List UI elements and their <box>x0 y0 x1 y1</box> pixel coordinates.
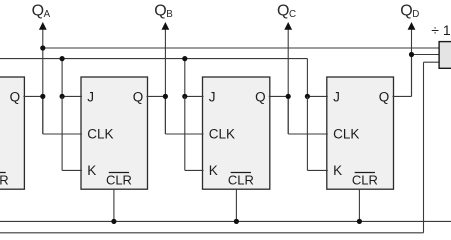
node QB output arrow <box>162 22 170 134</box>
junction dot CLR FF3 <box>234 219 239 224</box>
junction dot CLR FF4 <box>357 219 362 224</box>
svg-text:D: D <box>412 9 419 20</box>
wire: CLR drop of FF3 <box>235 189 237 221</box>
wire: rail drop to J of FF2 <box>62 59 82 97</box>
label QD <box>400 2 419 20</box>
svg-text:J: J <box>87 89 94 104</box>
junction dot QC <box>286 94 291 99</box>
svg-text:J: J <box>209 89 216 104</box>
wire: Q output of FF3 <box>269 95 288 97</box>
svg-text:CLR: CLR <box>228 173 254 188</box>
wire: Q output of FF2 <box>147 95 166 97</box>
junction dot Q_D / divider stub <box>409 52 414 57</box>
label QC <box>277 2 296 20</box>
JK flip-flop FF1 <box>0 77 24 189</box>
svg-text:Q: Q <box>400 2 412 19</box>
junction dot rail drop FF3 <box>182 56 187 99</box>
svg-text:K: K <box>333 163 342 178</box>
svg-text:A: A <box>44 9 51 20</box>
JK flip-flop FF4 <box>327 77 394 189</box>
wire: CLR bus <box>0 220 451 222</box>
svg-text:CLK: CLK <box>333 126 359 141</box>
junction dot rail drop FF4 <box>305 94 310 99</box>
junction dot QA <box>40 94 45 99</box>
wire: Q_A rail to divider input <box>43 47 440 49</box>
wire: Q_D stub into divider <box>412 54 441 56</box>
wire: drop to K of FF4 <box>307 96 327 170</box>
svg-text:J: J <box>333 89 340 104</box>
svg-text:CLK: CLK <box>209 126 235 141</box>
svg-text:Q: Q <box>277 2 289 19</box>
svg-text:CLR: CLR <box>352 173 378 188</box>
svg-text:K: K <box>209 163 218 178</box>
divider block U5 (divide-by-16) <box>439 42 451 69</box>
wire: rail drop to J of FF4 <box>307 59 327 97</box>
wire: rail drop to J of FF3 <box>185 59 204 97</box>
junction dot CLR FF2 <box>111 219 116 224</box>
svg-text:Q: Q <box>379 89 390 104</box>
junction dot QB <box>163 94 168 99</box>
node QD output arrow <box>408 22 416 96</box>
wire: CLR drop of FF2 <box>113 189 115 221</box>
node QC output arrow <box>284 22 292 134</box>
label QB <box>154 2 173 20</box>
svg-text:Q: Q <box>133 89 144 104</box>
svg-text:CLK: CLK <box>87 126 113 141</box>
svg-text:B: B <box>166 9 173 20</box>
JK flip-flop FF2 <box>81 77 148 189</box>
svg-text:Q: Q <box>154 2 166 19</box>
wire: drop to K of FF3 <box>185 96 204 170</box>
wire: Q output of FF1 <box>23 95 42 97</box>
wire: QC to CLK of FF4 <box>288 96 328 134</box>
junction dot rail drop FF2 <box>60 56 65 99</box>
node QA output arrow <box>39 22 47 134</box>
svg-text:÷ 16: ÷ 16 <box>431 22 451 38</box>
wire: divider output feedback to bottom rail <box>0 62 440 233</box>
svg-text:CLR: CLR <box>106 173 132 188</box>
wire: QA to CLK of FF2 <box>43 96 82 134</box>
JK flip-flop FF3 <box>203 77 270 189</box>
label QA <box>32 2 51 20</box>
wire: drop to K of FF2 <box>62 96 82 170</box>
wire: J-K rail from left edge <box>0 58 307 60</box>
label divide ratio <box>431 22 451 38</box>
svg-text:Q: Q <box>10 89 21 104</box>
svg-text:Q: Q <box>32 2 44 19</box>
junction dot Q_A / rail 1 <box>40 45 45 50</box>
svg-text:CLR: CLR <box>0 173 9 188</box>
svg-text:Q: Q <box>255 89 266 104</box>
wire: Q output of FF4 up to Q_D node <box>393 55 412 97</box>
svg-text:C: C <box>289 9 296 20</box>
wire: QB to CLK of FF3 <box>165 96 203 134</box>
svg-text:K: K <box>87 163 96 178</box>
wire: CLR drop of FF4 <box>358 189 360 221</box>
